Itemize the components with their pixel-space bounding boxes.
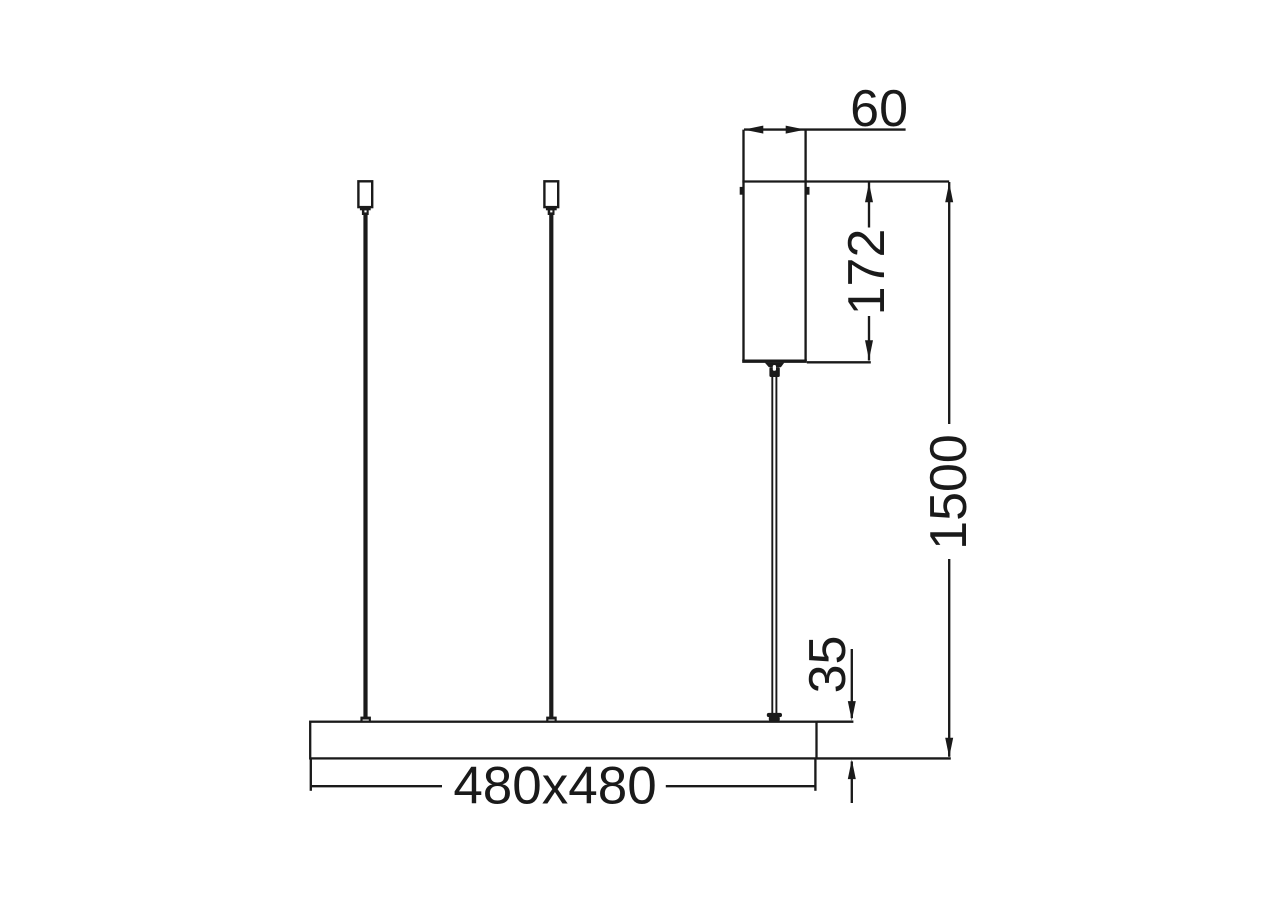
rod 2 top connector bbox=[544, 181, 558, 207]
dimension 35 lower shaft bbox=[851, 762, 853, 804]
suspension wire (double line) bbox=[771, 377, 773, 714]
dimension 1500 arrow down bbox=[945, 738, 953, 758]
rod 1 top connector nub bbox=[362, 210, 369, 215]
dimension 172 line lower bbox=[868, 316, 870, 361]
wire bottom connector bbox=[767, 713, 782, 717]
rod 2 top connector nub bbox=[548, 210, 555, 215]
dimension 1500 arrow up bbox=[945, 183, 953, 203]
rod 2 top connector step bbox=[546, 207, 557, 210]
rod 1 top connector bbox=[358, 181, 372, 207]
rod 1 top connector step bbox=[360, 207, 371, 210]
canopy box left edge bbox=[742, 130, 744, 362]
dimension 35 arrow down bbox=[848, 701, 856, 721]
canopy box left tick bbox=[740, 187, 744, 195]
dimension 172 arrow down bbox=[865, 340, 873, 360]
dimension 60 arrow left bbox=[744, 126, 764, 134]
rod 2 bottom foot bbox=[546, 717, 557, 722]
svg-text:1500: 1500 bbox=[920, 434, 978, 550]
dimension 480x480 left bracket bbox=[310, 758, 312, 790]
dimension 35 arrow up bbox=[848, 760, 856, 780]
dimension 60 arrow right bbox=[786, 126, 806, 134]
dimension 172 line upper bbox=[868, 182, 870, 228]
light bar body bbox=[310, 722, 816, 759]
canopy box bottom bbox=[742, 360, 807, 363]
svg-text:172: 172 bbox=[838, 229, 896, 316]
dimension 480x480 line right segment bbox=[666, 785, 816, 787]
dimension 480x480 line left segment bbox=[311, 785, 442, 787]
dimension 1500 line lower bbox=[948, 559, 950, 757]
bar bottom extension line bbox=[817, 757, 951, 759]
dimension 172 arrow up bbox=[865, 183, 873, 203]
svg-text:60: 60 bbox=[850, 80, 908, 138]
cable gland below box bbox=[765, 363, 785, 368]
suspension rod 1 (left) bbox=[363, 214, 367, 718]
canopy box right edge bbox=[804, 130, 806, 362]
dimension 172 lower extension line bbox=[807, 361, 871, 363]
svg-text:480x480: 480x480 bbox=[453, 757, 656, 816]
rod 1 bottom foot bbox=[360, 717, 371, 722]
canopy box right tick bbox=[806, 187, 810, 195]
dimension 480x480 right bracket bbox=[814, 758, 816, 790]
ceiling line bbox=[742, 180, 949, 182]
bar top extension line bbox=[817, 721, 853, 723]
suspension rod 2 (right) bbox=[549, 214, 553, 718]
svg-text:35: 35 bbox=[799, 636, 857, 694]
dimension 60 line bbox=[744, 128, 906, 130]
dimension 35 upper shaft bbox=[851, 649, 853, 718]
dimension 1500 line upper bbox=[948, 182, 950, 424]
